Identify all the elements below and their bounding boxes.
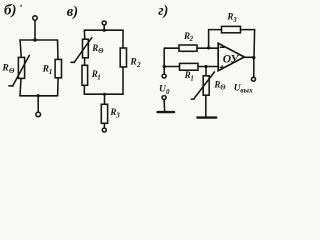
wire bottom rail б bbox=[20, 95, 58, 97]
wire output г bbox=[244, 56, 254, 58]
resistor R1 г bbox=[180, 63, 199, 70]
label б) bbox=[4, 2, 22, 18]
node output г bbox=[252, 56, 255, 59]
wire RΘ-R1 в bbox=[84, 58, 86, 66]
wire R1 row left г bbox=[164, 66, 179, 68]
wire top rail в bbox=[84, 29, 123, 31]
wire R2 row left г bbox=[164, 47, 179, 49]
svg-text:2: 2 bbox=[189, 36, 194, 43]
wire below R2 в bbox=[122, 67, 124, 94]
svg-text:Θ: Θ bbox=[220, 84, 225, 91]
wire right drop б bbox=[57, 40, 60, 59]
wire output down г bbox=[253, 58, 255, 77]
thermistor RΘ в bbox=[71, 38, 92, 63]
label R1 г bbox=[184, 70, 194, 83]
svg-text:R: R bbox=[1, 63, 8, 73]
terminal U0 bottom г bbox=[162, 96, 166, 100]
wire left drop б bbox=[20, 40, 21, 57]
terminal Uout г bbox=[252, 77, 256, 81]
wire feedback right г bbox=[241, 30, 255, 58]
wire right drop в bbox=[122, 30, 124, 48]
wire below R3 в bbox=[103, 123, 105, 128]
op-amp ОУ bbox=[218, 43, 244, 70]
wire U0 to ground г bbox=[163, 100, 166, 111]
node R1 left г bbox=[163, 65, 166, 68]
label R2 в bbox=[129, 57, 141, 69]
wire below RΘ б bbox=[20, 78, 21, 95]
node inverting input г bbox=[207, 46, 210, 49]
svg-text:1: 1 bbox=[49, 68, 53, 76]
wire top rail б bbox=[20, 39, 58, 41]
svg-text:г): г) bbox=[158, 3, 168, 19]
pin plus (non-inverting input) bbox=[220, 66, 224, 70]
ground RΘ г bbox=[197, 116, 216, 118]
svg-text:2: 2 bbox=[136, 61, 141, 69]
resistor R3 г bbox=[222, 26, 241, 32]
node top в bbox=[103, 29, 106, 32]
svg-text:Θ: Θ bbox=[9, 67, 15, 75]
label г) bbox=[158, 3, 168, 19]
svg-text:0: 0 bbox=[166, 88, 170, 96]
wire left drop в bbox=[83, 30, 86, 39]
wire bottom rail в bbox=[84, 93, 123, 95]
wire R2 to op-amp г bbox=[197, 47, 218, 49]
wire R1 to op-amp г bbox=[198, 66, 218, 68]
svg-text:R: R bbox=[91, 43, 98, 53]
wire below R1 б bbox=[57, 78, 60, 96]
resistor R1 в bbox=[82, 65, 88, 85]
svg-text:в): в) bbox=[67, 4, 78, 20]
wire top б bbox=[34, 20, 36, 39]
node non-inverting input г bbox=[204, 65, 207, 68]
thermistor RΘ г bbox=[191, 72, 214, 99]
node bottom б bbox=[37, 94, 40, 97]
svg-text:ОУ: ОУ bbox=[223, 53, 241, 65]
terminal bottom в bbox=[102, 128, 106, 132]
resistor R2 г bbox=[179, 45, 197, 51]
terminal top б bbox=[33, 16, 37, 20]
svg-text:Θ: Θ bbox=[98, 48, 103, 55]
svg-text:1: 1 bbox=[97, 74, 101, 82]
node bottom в bbox=[103, 93, 106, 96]
label R3 г bbox=[226, 12, 237, 24]
label R1 б bbox=[42, 65, 53, 76]
terminal U0 top г bbox=[162, 74, 166, 78]
thermistor RΘ б bbox=[9, 55, 30, 86]
label Uвых bbox=[234, 84, 253, 95]
wire feedback up г bbox=[209, 30, 222, 48]
terminal top в bbox=[102, 21, 106, 25]
svg-text:б): б) bbox=[4, 2, 16, 18]
label RΘ г bbox=[213, 79, 225, 91]
label R1 в bbox=[91, 69, 101, 81]
ground U0 г bbox=[158, 111, 175, 113]
label RΘ б bbox=[1, 63, 15, 75]
label R2 г bbox=[183, 31, 194, 43]
pin minus (inverting input) bbox=[220, 46, 224, 48]
resistor R2 в bbox=[120, 48, 126, 67]
wire top в bbox=[103, 25, 105, 30]
terminal bottom б bbox=[36, 112, 41, 117]
wire left column г bbox=[163, 48, 165, 74]
resistor R3 в bbox=[101, 104, 107, 123]
svg-text:3: 3 bbox=[115, 111, 120, 119]
label RΘ в bbox=[91, 43, 103, 55]
resistor R1 б bbox=[55, 59, 61, 77]
wire to R3 в bbox=[104, 94, 106, 104]
svg-text:вых: вых bbox=[240, 86, 253, 95]
wire bottom б bbox=[37, 96, 39, 112]
svg-text:R: R bbox=[129, 57, 136, 67]
wire RΘ to ground г bbox=[205, 95, 207, 117]
label R3 в bbox=[109, 107, 120, 120]
node top б bbox=[33, 38, 36, 41]
label U0 bbox=[159, 85, 170, 96]
wire below R1 в bbox=[83, 85, 85, 94]
svg-text:3: 3 bbox=[232, 17, 237, 24]
label в) bbox=[67, 4, 78, 20]
svg-text:1: 1 bbox=[190, 76, 193, 83]
wire to RΘ г bbox=[205, 67, 207, 76]
